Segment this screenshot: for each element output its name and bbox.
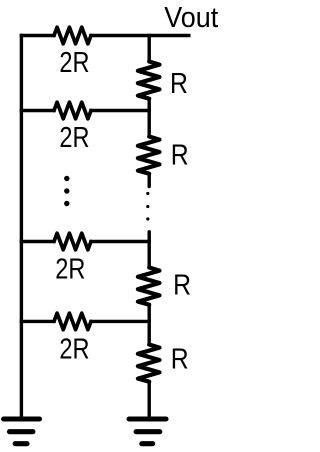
wire: middle bus stub row3 to R3: [147, 242, 150, 268]
wire: middle bus stub R1 to row2: [147, 99, 150, 111]
resistor R1 vertical zigzag: [138, 62, 160, 99]
ground (right, bottom of ladder bus): [129, 416, 166, 421]
svg-text:R: R: [171, 140, 189, 172]
resistor 2R row 3 zigzag: [54, 233, 91, 250]
wire: row 2 horizontal: [21, 109, 54, 112]
resistor 2R row 4 zigzag: [54, 313, 91, 330]
svg-text:2R: 2R: [55, 254, 85, 286]
wire: middle bus stub row4 to R4: [147, 321, 150, 344]
resistor R4 vertical zigzag: [138, 345, 160, 382]
wire: middle bus stub R3 to row4: [147, 305, 150, 322]
wire: row 4 horizontal: [21, 320, 54, 323]
wire: middle bus dangling stub below R2: [147, 174, 150, 187]
wire: middle bus stub row2 to R2: [147, 111, 150, 137]
wire: middle bus stub R4 to ground: [147, 382, 150, 416]
svg-text:R: R: [173, 270, 191, 302]
svg-text:R: R: [170, 68, 188, 100]
wire: middle bus dangling stub above row3: [147, 232, 150, 242]
svg-text:2R: 2R: [59, 333, 89, 365]
resistor R3 vertical zigzag: [138, 268, 160, 305]
resistor 2R row 2 zigzag: [54, 102, 91, 119]
resistor R2 vertical zigzag: [138, 137, 160, 174]
svg-text:Vout: Vout: [164, 2, 218, 34]
svg-text:2R: 2R: [59, 122, 89, 154]
svg-text:2R: 2R: [59, 47, 89, 79]
node: continuation dots (left branch column): [64, 176, 69, 181]
wire: middle bus stub row1 to R1: [147, 36, 150, 62]
ground (left, bottom of bus): [4, 416, 40, 421]
svg-text:R: R: [171, 344, 189, 376]
wire: left vertical bus: [20, 36, 23, 417]
node: continuation dots (middle bus column): [146, 192, 149, 195]
wire: row 3 horizontal: [21, 240, 54, 243]
wire: top output rail (row 1): [21, 34, 54, 37]
resistor 2R row 1 zigzag: [54, 27, 91, 44]
